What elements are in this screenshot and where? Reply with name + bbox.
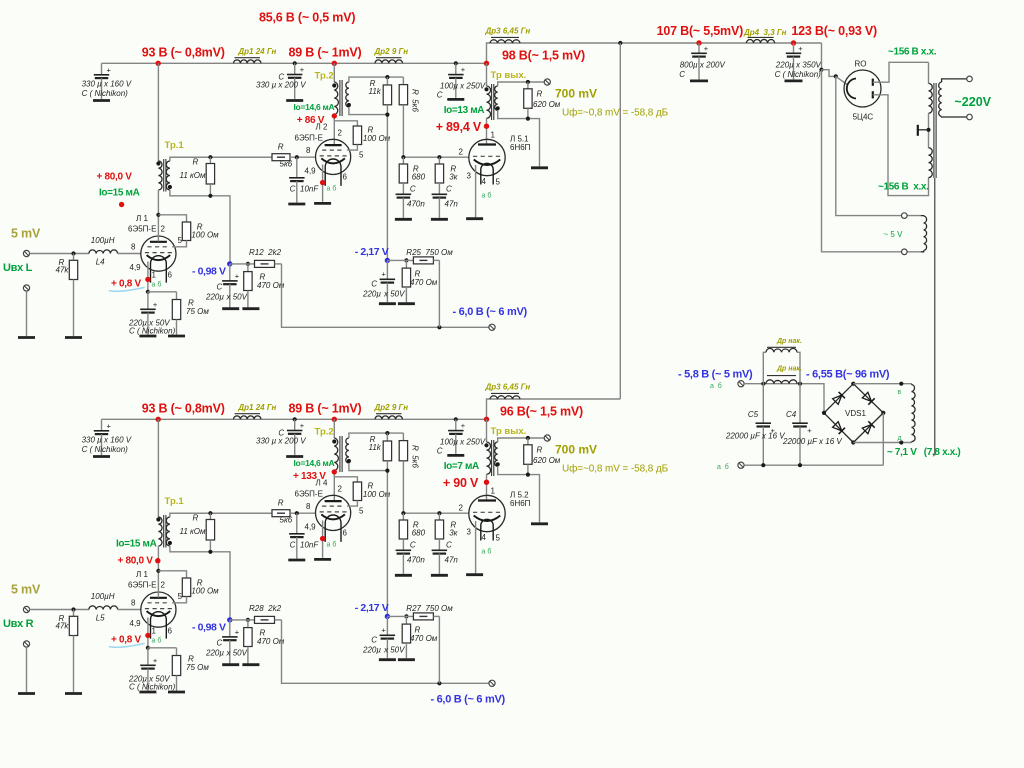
node 100u cap junction (R) xyxy=(454,417,458,421)
resistor R 100 Om screen L2 (L) xyxy=(334,121,357,126)
svg-text:2: 2 xyxy=(161,225,166,234)
svg-text:100 Ом: 100 Ом xyxy=(363,490,391,499)
wire 5V winding feeds xyxy=(822,70,921,252)
capacitor C 330u 160V (L) xyxy=(101,63,103,75)
svg-text:800µ x 200V: 800µ x 200V xyxy=(680,61,726,70)
svg-text:10nF: 10nF xyxy=(300,541,319,550)
svg-text:Uвх L: Uвх L xyxy=(3,262,33,274)
node cap junction (R) xyxy=(293,417,297,421)
ground bias R470 (L) xyxy=(242,307,259,310)
resistor R 3k (R) xyxy=(438,513,440,520)
node C4 bottom xyxy=(798,463,802,467)
svg-text:- 6,0 В (~ 6 mV): - 6,0 В (~ 6 mV) xyxy=(431,694,506,706)
diode D4 (bottom-right edge) xyxy=(862,425,871,434)
node rect feed 2 xyxy=(834,74,838,78)
svg-text:а б: а б xyxy=(152,281,162,289)
svg-text:100µ x 250V: 100µ x 250V xyxy=(440,438,486,447)
svg-text:5 mV: 5 mV xyxy=(11,583,41,597)
svg-text:+: + xyxy=(107,421,112,430)
svg-text:R12 2k2: R12 2k2 xyxy=(249,248,282,257)
choke Dr nak 1 xyxy=(763,352,766,383)
input ground terminal (R) xyxy=(23,641,29,647)
terminal -6V (R) xyxy=(489,680,495,686)
ground C10nF (L) xyxy=(288,203,305,206)
node R11k bottom (L) xyxy=(208,194,212,198)
node 93V (R) xyxy=(156,417,161,422)
resistor R 470 Om bias (R) xyxy=(247,620,249,628)
svg-text:+ 80,0 V: + 80,0 V xyxy=(118,556,154,567)
resistor R 75 Om (R) xyxy=(148,647,177,649)
wire interconnect channels xyxy=(619,43,621,399)
capacitor C 470n (L) xyxy=(396,193,412,195)
choke Dr3 6.45Gn (R) xyxy=(490,396,520,399)
input terminal Vin (L) xyxy=(23,250,29,256)
svg-text:5 mV: 5 mV xyxy=(11,227,41,241)
svg-text:в: в xyxy=(898,389,902,396)
ground C47n (R) xyxy=(431,574,448,577)
node grid stopper junction (L) xyxy=(208,155,212,159)
svg-text:11 кОм: 11 кОм xyxy=(180,171,207,180)
svg-text:89 В (~ 1mV): 89 В (~ 1mV) xyxy=(289,46,362,60)
svg-text:22000 µF x 16 V: 22000 µF x 16 V xyxy=(725,432,785,441)
svg-text:220µ x 350V: 220µ x 350V xyxy=(775,61,822,70)
cathode circuit L1 (R) xyxy=(147,618,149,648)
svg-text:R: R xyxy=(278,499,284,508)
resistor R 47k (L) xyxy=(73,254,75,261)
winding 7.1V xyxy=(911,383,913,386)
diode D3 (top-right edge) xyxy=(862,392,871,401)
svg-text:C: C xyxy=(410,541,416,550)
svg-text:+: + xyxy=(107,65,112,74)
wire R25 down to -6V line (R) xyxy=(438,616,440,683)
svg-text:Др2 9 Гн: Др2 9 Гн xyxy=(374,403,409,412)
svg-text:3к: 3к xyxy=(449,173,458,182)
svg-text:Др4 3,3 Гн: Др4 3,3 Гн xyxy=(743,28,787,37)
svg-text:+: + xyxy=(300,421,305,430)
ground cathode cap (L) xyxy=(139,335,156,338)
ground R47k (R) xyxy=(65,692,82,695)
wire to cathode node xyxy=(822,70,836,77)
node 107V xyxy=(696,40,701,45)
ground for C 100u 250V (R) xyxy=(447,454,464,457)
svg-text:C5: C5 xyxy=(748,410,759,419)
svg-text:+: + xyxy=(153,300,158,309)
grid line stage3 (R) xyxy=(403,512,469,514)
svg-text:8: 8 xyxy=(306,146,311,155)
capacitor C 470n (R) xyxy=(396,549,412,551)
svg-text:C: C xyxy=(217,639,223,648)
svg-text:R 5к6: R 5к6 xyxy=(411,89,420,112)
svg-text:5: 5 xyxy=(496,534,501,543)
svg-text:Тр вых.: Тр вых. xyxy=(491,426,527,437)
ground C220u350V xyxy=(785,80,803,83)
resistor R 470 Om bias (L) xyxy=(247,264,249,272)
svg-text:3: 3 xyxy=(467,172,472,181)
svg-text:700 mV: 700 mV xyxy=(555,443,597,457)
ground for C 330u 160V (R) xyxy=(93,455,110,458)
wire input (R) xyxy=(30,609,89,611)
ground C10nF (R) xyxy=(288,559,305,562)
node bridge right xyxy=(881,411,885,415)
svg-text:R: R xyxy=(278,143,284,152)
svg-text:R: R xyxy=(193,514,199,523)
choke Dr2 9Gn (L) xyxy=(375,60,403,63)
svg-text:- 2,17 V: - 2,17 V xyxy=(355,602,389,614)
wire to grid L1 (L) xyxy=(118,253,141,255)
Tr2 secondary top wire (L) xyxy=(349,77,404,82)
inductor L4 100uH (L) xyxy=(89,250,118,254)
svg-text:11k: 11k xyxy=(369,87,382,96)
svg-text:2: 2 xyxy=(161,581,166,590)
node input junction (L) xyxy=(71,251,75,255)
svg-text:+ 80,0 V: + 80,0 V xyxy=(97,172,133,183)
terminal 5V top xyxy=(902,213,908,219)
svg-text:Тр.1: Тр.1 xyxy=(165,496,185,507)
wire rail riser to Dr3 (L) xyxy=(487,43,621,63)
svg-text:4,9: 4,9 xyxy=(305,167,317,176)
svg-text:- 2,17 V: - 2,17 V xyxy=(355,246,389,258)
rectifier tube RO 5C4S xyxy=(844,70,881,107)
terminal -6V (L) xyxy=(489,324,495,330)
resistor R 100 Om screen L2 (R) xyxy=(334,477,357,482)
svg-text:Io=15 мА: Io=15 мА xyxy=(99,188,140,199)
svg-text:а б: а б xyxy=(482,192,492,200)
transformer core xyxy=(933,83,935,178)
svg-text:а б: а б xyxy=(482,548,492,556)
cathode L2 (R) xyxy=(322,521,324,558)
svg-text:93 В (~ 0,8mV): 93 В (~ 0,8mV) xyxy=(142,402,225,416)
svg-text:85,6 В (~ 0,5 mV): 85,6 В (~ 0,5 mV) xyxy=(259,11,355,25)
svg-text:470 Ом: 470 Ом xyxy=(410,634,438,643)
node -6V junction (R) xyxy=(437,681,441,685)
center tap xyxy=(926,128,930,132)
resistor R 100 Om screen L1 (L) xyxy=(158,215,186,222)
ground R75 (R) xyxy=(168,691,185,694)
terminal 5V bottom xyxy=(902,249,908,255)
svg-text:C: C xyxy=(437,91,443,100)
svg-text:+: + xyxy=(461,421,466,430)
svg-text:5Ц4С: 5Ц4С xyxy=(853,113,874,122)
svg-text:Тр вых.: Тр вых. xyxy=(491,70,527,81)
choke Dr nak 2 xyxy=(766,380,797,384)
svg-text:+: + xyxy=(300,65,305,74)
ground cathode L5 (L) xyxy=(466,217,483,220)
svg-text:98 В(~ 1,5 mV): 98 В(~ 1,5 mV) xyxy=(502,49,585,63)
node -0.98V (L) xyxy=(227,261,232,266)
svg-text:75 Ом: 75 Ом xyxy=(186,663,209,672)
ground bias R470 (R) xyxy=(242,663,259,666)
svg-text:а б: а б xyxy=(327,185,337,193)
node rect feed 1 xyxy=(819,68,823,72)
svg-text:6: 6 xyxy=(168,627,173,636)
svg-text:- 0,98 V: - 0,98 V xyxy=(192,622,226,634)
svg-text:- 0,98 V: - 0,98 V xyxy=(192,266,226,278)
svg-text:+: + xyxy=(798,44,803,53)
cathode L5 to ground (R) xyxy=(475,521,477,573)
svg-text:Др3 6,45 Гн: Др3 6,45 Гн xyxy=(485,27,531,36)
svg-text:96 В(~ 1,5 mV): 96 В(~ 1,5 mV) xyxy=(500,405,583,419)
output terminal (R) xyxy=(544,435,550,441)
svg-text:C: C xyxy=(446,185,452,194)
svg-text:~156 В х.х.: ~156 В х.х. xyxy=(888,47,937,58)
svg-text:89 В (~ 1mV): 89 В (~ 1mV) xyxy=(289,402,362,416)
svg-text:C: C xyxy=(410,185,416,194)
svg-text:R: R xyxy=(193,158,199,167)
svg-text:Л 2: Л 2 xyxy=(316,123,328,132)
svg-text:Io=13 мА: Io=13 мА xyxy=(444,105,485,116)
svg-text:~ 7,1 V (7,8 х.х.): ~ 7,1 V (7,8 х.х.) xyxy=(887,447,960,458)
wire anode top to HV winding xyxy=(873,62,929,82)
ground C47n (L) xyxy=(431,218,448,221)
svg-text:10nF: 10nF xyxy=(300,185,319,194)
tube L2 6E5P-E (L) xyxy=(316,139,351,174)
node anode L1 (R) xyxy=(156,569,160,573)
svg-text:1: 1 xyxy=(491,487,496,496)
svg-text:Др нак.: Др нак. xyxy=(776,338,802,345)
resistor R 11k (L) xyxy=(386,77,388,85)
node C5 bottom xyxy=(761,463,765,467)
svg-text:470n: 470n xyxy=(407,556,425,565)
wire input (L) xyxy=(30,253,89,255)
choke Dr4 3.3Gn xyxy=(747,39,775,43)
svg-text:4,9: 4,9 xyxy=(130,619,142,628)
wire -6V feed (L) xyxy=(282,264,493,327)
ground cathode L2 (R) xyxy=(314,558,331,561)
svg-text:C: C xyxy=(371,280,377,289)
svg-text:5: 5 xyxy=(359,507,364,516)
terminal 220V bottom xyxy=(967,114,973,120)
resistor R 3k (L) xyxy=(438,157,440,164)
svg-text:6: 6 xyxy=(343,529,348,538)
output terminal (L) xyxy=(544,79,550,85)
choke Dr2 9Gn (R) xyxy=(375,416,403,419)
svg-text:Io=7 мА: Io=7 мА xyxy=(444,461,479,472)
svg-text:700 mV: 700 mV xyxy=(555,87,597,101)
primary 220V winding xyxy=(939,82,942,117)
wire to grid L1 (R) xyxy=(118,609,141,611)
resistor R 5k6 vertical (R) xyxy=(402,433,404,441)
svg-text:x 50V: x 50V xyxy=(226,293,248,302)
svg-text:- 6,55 В(~ 96 mV): - 6,55 В(~ 96 mV) xyxy=(806,369,890,381)
capacitor C 100u 250V (L) xyxy=(455,63,457,74)
wire R25 down to -6V line (L) xyxy=(438,260,440,327)
resistor R 5k6 (R) xyxy=(170,512,272,514)
capacitor C 220u 350V xyxy=(793,43,795,53)
capacitor C 220u 50V cathode (L) xyxy=(147,292,149,310)
svg-text:а б: а б xyxy=(717,463,729,471)
node R11k bottom (R) xyxy=(208,550,212,554)
svg-text:2: 2 xyxy=(459,504,464,513)
svg-text:C: C xyxy=(446,541,452,550)
capacitor C 330u 200V (L) xyxy=(294,63,296,74)
ground for C 100u 250V (L) xyxy=(447,98,464,101)
input ground terminal (L) xyxy=(23,285,29,291)
transformer power HV winding xyxy=(928,62,930,83)
capacitor C 47n (L) xyxy=(432,193,448,195)
ground bias2 R470 (L) xyxy=(398,302,415,305)
svg-text:C: C xyxy=(290,185,296,194)
svg-text:C ( Nichikon): C ( Nichikon) xyxy=(82,89,129,98)
choke Dr1 24Gn (R) xyxy=(234,416,262,419)
resistor R 47k (R) xyxy=(73,610,75,617)
resistor R 75 Om (L) xyxy=(148,291,177,293)
svg-text:470 Ом: 470 Ом xyxy=(257,281,285,290)
svg-text:47n: 47n xyxy=(445,556,459,565)
resistor R 620 Om (R) xyxy=(527,438,529,445)
svg-text:4: 4 xyxy=(482,177,487,186)
svg-text:2: 2 xyxy=(338,485,343,494)
ground for C 330u 200V (R) xyxy=(286,455,303,458)
node grid stopper junction (R) xyxy=(208,511,212,515)
node cap junction (L) xyxy=(293,61,297,65)
svg-text:+: + xyxy=(235,627,240,636)
svg-text:Io=15 мА: Io=15 мА xyxy=(116,539,157,550)
resistor R 100 Om screen L1 (R) xyxy=(158,571,186,578)
svg-text:4: 4 xyxy=(482,533,487,542)
svg-text:4,9: 4,9 xyxy=(130,263,142,272)
resistor R 620 Om (L) xyxy=(527,82,529,89)
node anode L1 (L) xyxy=(156,213,160,217)
capacitor C 220u 50V bias (R) xyxy=(229,620,231,637)
svg-text:+: + xyxy=(381,269,386,278)
ground R75 (L) xyxy=(168,335,185,338)
svg-text:Л 1: Л 1 xyxy=(136,570,148,579)
ground R47k (L) xyxy=(65,336,82,339)
resistor R 11 kOm (L) xyxy=(209,157,211,163)
svg-text:д: д xyxy=(898,435,902,442)
capacitor C 330u 200V (R) xyxy=(294,419,296,430)
Tr out secondary bottom to ground (R) xyxy=(498,466,540,522)
svg-text:1: 1 xyxy=(152,271,157,280)
ground for C 330u 200V (L) xyxy=(286,99,303,102)
Tr1 secondary bottom wire (R) xyxy=(170,546,230,620)
svg-text:R28 2k2: R28 2k2 xyxy=(249,604,282,613)
wire PSU rail xyxy=(620,42,821,44)
svg-text:RO: RO xyxy=(855,60,867,69)
grid line stage3 (L) xyxy=(403,156,469,158)
Tr2 secondary bottom wire to -2.17V (L) xyxy=(349,107,388,260)
ground output (R) xyxy=(531,522,548,525)
svg-text:5: 5 xyxy=(496,178,501,187)
capacitor C 330u 160V (R) xyxy=(101,419,103,431)
svg-text:Тр.2: Тр.2 xyxy=(315,71,334,82)
capacitor C5 22000uF xyxy=(762,384,764,424)
wire Tr1 to anode (L) xyxy=(157,190,159,242)
wire bridge top to winding xyxy=(853,383,911,385)
Tr out secondary to terminal (R) xyxy=(498,438,545,442)
svg-text:220µ: 220µ xyxy=(362,646,381,655)
ground cathode cap (R) xyxy=(139,691,156,694)
wire Tr1 to anode (R) xyxy=(157,546,159,598)
node winding top xyxy=(899,382,903,386)
capacitor C 10nF (L) xyxy=(296,157,298,178)
svg-text:x 50V: x 50V xyxy=(383,290,405,299)
svg-text:Uф=~0,8 mV = -58,8 дБ: Uф=~0,8 mV = -58,8 дБ xyxy=(562,463,669,475)
ground output (L) xyxy=(531,166,548,169)
svg-text:220µ: 220µ xyxy=(362,290,381,299)
svg-text:1: 1 xyxy=(491,131,496,140)
ground cathode L5 (R) xyxy=(466,573,483,576)
cathode circuit L1 (L) xyxy=(147,262,149,292)
svg-text:C: C xyxy=(437,447,443,456)
wire filament bottom rail xyxy=(744,464,883,466)
ground C470n (R) xyxy=(395,574,412,577)
svg-text:3: 3 xyxy=(467,528,472,537)
wire rail riser to Dr3 (R) xyxy=(487,399,621,419)
svg-text:C: C xyxy=(217,283,223,292)
svg-text:123 В(~ 0,93 V): 123 В(~ 0,93 V) xyxy=(791,24,877,38)
tube L1 6E5P-E (L) xyxy=(141,236,176,271)
node 100u cap junction (L) xyxy=(454,61,458,65)
svg-text:+: + xyxy=(704,44,709,53)
resistor R 11k (R) xyxy=(386,433,388,441)
tube L5 6N6P (R) xyxy=(469,495,505,531)
resistor R 470 Om bias2 (L) xyxy=(405,260,407,268)
svg-text:+ 0,8 V: + 0,8 V xyxy=(111,634,141,645)
svg-text:6Э5П-Е: 6Э5П-Е xyxy=(128,225,156,234)
node +86V anode L2 (L) xyxy=(333,115,335,145)
svg-text:680: 680 xyxy=(412,173,426,182)
svg-text:~ 5 V: ~ 5 V xyxy=(884,230,904,239)
node choke left xyxy=(761,382,765,386)
svg-text:C4: C4 xyxy=(786,410,797,419)
diode D1 (bottom-left edge) xyxy=(833,422,842,431)
svg-text:C: C xyxy=(679,70,685,79)
svg-text:8: 8 xyxy=(131,599,136,608)
ground bias2 cap (R) xyxy=(379,658,396,661)
resistor R 5k6 vertical (L) xyxy=(402,77,404,85)
capacitor C4 22000uF xyxy=(799,384,801,424)
resistor R 680 (R) xyxy=(402,513,404,520)
svg-text:8: 8 xyxy=(306,502,311,511)
wire anode bottom to HV winding bottom xyxy=(873,95,929,196)
inductor L5 100uH (R) xyxy=(89,606,118,610)
cathode L5 to ground (L) xyxy=(475,165,477,217)
svg-text:330 µ x 200 V: 330 µ x 200 V xyxy=(256,437,306,446)
svg-text:3к: 3к xyxy=(449,529,458,538)
terminal filament minus xyxy=(738,462,744,468)
svg-text:Л 1: Л 1 xyxy=(136,214,148,223)
svg-text:Др1 24 Гн: Др1 24 Гн xyxy=(237,403,276,412)
svg-text:C ( Nichikon): C ( Nichikon) xyxy=(775,70,822,79)
ground bias cap (L) xyxy=(222,307,239,310)
tube L1 6E5P-E (R) xyxy=(141,592,176,627)
node -6V junction (L) xyxy=(437,325,441,329)
Tr2 secondary bottom wire to -2.17V (R) xyxy=(349,463,388,616)
svg-text:47k: 47k xyxy=(56,266,70,275)
svg-text:6Э5П-Е: 6Э5П-Е xyxy=(295,134,323,143)
svg-text:+ 90 V: + 90 V xyxy=(443,476,479,490)
Tr2 secondary top wire (R) xyxy=(349,433,404,438)
svg-text:6Н6П: 6Н6П xyxy=(510,499,531,508)
svg-text:Тр.1: Тр.1 xyxy=(165,140,185,151)
svg-text:47k: 47k xyxy=(56,622,70,631)
svg-text:620 Ом: 620 Ом xyxy=(533,456,561,465)
svg-text:5к6: 5к6 xyxy=(280,516,293,525)
node 98V rail (L) xyxy=(484,61,489,66)
wire bridge bottom to winding xyxy=(853,442,911,444)
svg-text:+: + xyxy=(381,625,386,634)
svg-text:Uф=~0,8 mV = -58,8 дБ: Uф=~0,8 mV = -58,8 дБ xyxy=(562,107,669,119)
node +86V anode L2 (R) xyxy=(333,471,335,501)
capacitor C 220u 50V bias (L) xyxy=(229,264,231,281)
wire -6V feed (R) xyxy=(282,620,493,683)
capacitor C 10nF (R) xyxy=(296,513,298,534)
Tr1 secondary top wire to grid stopper (L) xyxy=(170,157,272,161)
input terminal Vin (R) xyxy=(23,606,29,612)
Tr1 secondary top wire to grid stopper (R) xyxy=(170,513,272,517)
resistor R25 750 &#1054;&#1084; (L) xyxy=(404,258,408,262)
